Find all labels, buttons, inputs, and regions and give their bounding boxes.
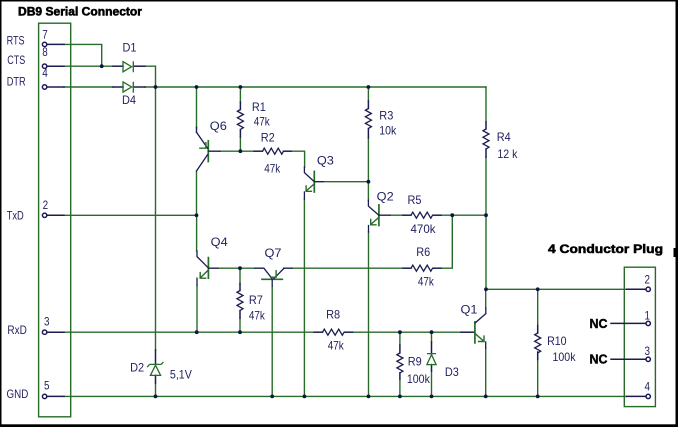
wire Q6 collector to TxD junction — [196, 171, 198, 215]
wire R3 stub bottom — [367, 129, 369, 139]
wire R7 bottom to RxD — [239, 318, 241, 332]
svg-text:Q1: Q1 — [461, 303, 478, 317]
svg-text:Q7: Q7 — [265, 246, 282, 260]
wire R9 top — [399, 332, 401, 345]
svg-text:Q6: Q6 — [210, 119, 227, 133]
wire plug pin2 line — [486, 288, 627, 290]
resistor R1 zigzag — [237, 110, 243, 130]
resistor R9 zigzag — [397, 353, 403, 373]
wire GND rail — [64, 395, 627, 397]
wire CTS pin8 to D1 — [64, 65, 113, 67]
wire D2 cathode stub — [155, 350, 157, 364]
wire R1 stub bottom — [239, 130, 241, 138]
wire Q2 base to R5 — [390, 214, 403, 216]
svg-text:2: 2 — [43, 198, 49, 212]
diode D4 — [123, 82, 133, 93]
wire R5 stub left — [403, 214, 411, 216]
wire D3 anode stub — [431, 365, 433, 371]
svg-text:R6: R6 — [416, 245, 430, 259]
svg-text:R8: R8 — [326, 308, 340, 322]
wire R9 stub top — [399, 345, 401, 353]
junction Q3 emitter on GND — [303, 395, 307, 399]
junction D2 on GND — [154, 395, 158, 399]
wire R4 stub top — [485, 122, 487, 129]
wire R9 bottom — [399, 379, 401, 396]
junction D3 bottom on GND — [430, 395, 434, 399]
wire R6 stub right — [433, 267, 441, 269]
connector DB9 box — [39, 23, 71, 417]
wire R10 top — [537, 289, 539, 325]
svg-text:47k: 47k — [328, 339, 345, 353]
wire RxD pin3 to R8 — [64, 331, 314, 333]
wire R1 bottom to base line — [239, 137, 241, 151]
svg-text:47k: 47k — [254, 115, 271, 129]
pin stub plug pin4 — [627, 395, 646, 397]
svg-text:D2: D2 — [130, 361, 144, 375]
wire D2 anode stub — [155, 375, 157, 383]
wire Q6 emitter branch — [196, 87, 198, 128]
pin circle plug 3 — [646, 357, 650, 361]
pin stub DB9 pin4 — [47, 86, 64, 88]
junction R10 bottom on GND — [536, 395, 540, 399]
wire R6 stub left — [403, 267, 411, 269]
wire R5 stub right — [433, 214, 441, 216]
resistor R8 zigzag — [323, 329, 345, 335]
wire Q6 base to R2 — [220, 150, 254, 152]
junction R3 on DTR rail — [367, 85, 371, 89]
transistor Q6 — [197, 128, 221, 172]
wire R3 branch top — [367, 87, 369, 101]
junction R9 bottom on GND — [398, 395, 402, 399]
wire D1 cathode to DTR rail — [145, 66, 156, 87]
wire D2 anode to GND — [155, 383, 157, 396]
wire D1 anode stub — [113, 65, 123, 67]
connector 4-conductor plug box — [624, 267, 655, 406]
wire Q2 collector stub — [367, 182, 369, 201]
svg-text:D3: D3 — [445, 365, 459, 379]
wire Q4 base line — [218, 267, 255, 269]
pin circle plug 2 — [646, 287, 650, 291]
svg-text:CTS: CTS — [7, 53, 25, 67]
wire R2 to Q3 collector — [291, 151, 305, 167]
pin circle DB9 8 — [42, 64, 46, 68]
resistor R6 zigzag — [411, 265, 433, 271]
svg-text:Q3: Q3 — [317, 154, 334, 168]
transistor Q7 — [255, 268, 292, 286]
wire R10 stub top — [537, 326, 539, 334]
junction R9 top on RxD — [398, 330, 402, 334]
wire D3 bottom — [431, 371, 433, 396]
wire Q2 emitter to GND — [368, 232, 370, 396]
wire R6 to R5 junction — [441, 215, 452, 268]
svg-text:GND: GND — [7, 387, 29, 401]
svg-text:3: 3 — [645, 344, 651, 358]
svg-text:DTR: DTR — [7, 75, 26, 89]
svg-text:8: 8 — [42, 45, 48, 59]
wire R10 stub bottom — [537, 352, 539, 360]
junction R1 bottom on base line — [239, 149, 243, 153]
wire R7 stub bottom — [239, 311, 241, 319]
pin stub plug pin2 — [627, 288, 646, 290]
svg-text:NC: NC — [590, 316, 609, 331]
pin stub plug pin3 NC — [611, 358, 645, 360]
junction Q6 emitter on DTR rail — [195, 85, 199, 89]
svg-text:R2: R2 — [261, 131, 275, 145]
junction R10 top — [536, 287, 540, 291]
wire R2 stub left — [254, 150, 263, 152]
wire R5 to R4 bottom — [441, 214, 486, 216]
junction Q7 base on GND — [270, 395, 274, 399]
wire Q3 base line — [323, 181, 368, 183]
junction Q1 collector pin2 line — [484, 287, 488, 291]
svg-text:Q4: Q4 — [211, 235, 228, 249]
wire R7 stub top — [239, 284, 241, 291]
wire R1 branch top — [239, 87, 241, 102]
wire RTS pin7 to CTS junction — [64, 44, 102, 66]
junction Q4 emitter on RxD — [195, 330, 199, 334]
junction R5 R6 — [450, 213, 454, 217]
svg-text:NC: NC — [590, 352, 609, 367]
svg-text:4: 4 — [645, 380, 651, 394]
wire R8 stub right — [345, 331, 353, 333]
wire R3 bottom to Q3 base junction — [367, 138, 369, 182]
svg-text:5: 5 — [44, 379, 50, 393]
svg-text:R7: R7 — [249, 293, 263, 307]
wire Q4 collector to RxD — [196, 285, 198, 332]
svg-text:100k: 100k — [553, 350, 577, 364]
pin stub plug pin1 NC — [611, 322, 645, 324]
svg-text:R3: R3 — [379, 109, 393, 123]
transistor Q3 — [304, 167, 323, 199]
transistor Q2 — [368, 200, 390, 232]
pin circle plug 1 — [646, 321, 650, 325]
svg-text:R5: R5 — [408, 193, 422, 207]
pin circle DB9 3 — [42, 330, 46, 334]
pin stub DB9 pin2 — [47, 214, 64, 216]
wire Q1 collector riser — [485, 289, 487, 308]
junction R3 bottom Q3 base — [367, 180, 371, 184]
wire TxD pin2 — [64, 214, 197, 216]
wire D3 cathode stub — [431, 342, 433, 353]
svg-text:R9: R9 — [408, 355, 422, 369]
junction TxD Q6-Q4 — [195, 213, 199, 217]
resistor R3 zigzag — [365, 109, 371, 129]
wire D4 cathode stub — [133, 86, 145, 88]
junction Q4 base R7 — [238, 266, 242, 270]
wire Q3 emitter to GND — [303, 199, 305, 396]
pin stub DB9 pin7 — [47, 43, 64, 45]
svg-text:12 k: 12 k — [497, 147, 518, 161]
pin circle plug 4 — [646, 394, 650, 398]
diode D3 — [427, 354, 436, 365]
svg-text:DB9 Serial Connector: DB9 Serial Connector — [18, 7, 143, 19]
svg-text:4 Conductor Plug: 4 Conductor Plug — [548, 242, 663, 256]
wire R4 branch top — [485, 87, 487, 122]
diode D1 — [123, 61, 133, 72]
svg-text:Q2: Q2 — [377, 190, 394, 204]
svg-text:D4: D4 — [122, 93, 136, 107]
wire R10 bottom — [537, 360, 539, 397]
svg-text:RxD: RxD — [7, 323, 27, 337]
pin circle DB9 4 — [42, 85, 46, 89]
junction Q2 emitter on GND — [367, 395, 371, 399]
svg-text:7: 7 — [42, 27, 48, 41]
svg-text:4: 4 — [42, 66, 48, 80]
wire D2 column top — [155, 87, 157, 350]
wire R4 bottom junction chain — [485, 157, 487, 289]
svg-text:100k: 100k — [407, 372, 431, 386]
wire Q1 emitter to GND — [485, 348, 487, 396]
transistor Q1 — [475, 308, 486, 348]
svg-text:TxD: TxD — [7, 209, 24, 223]
svg-text:RTS: RTS — [7, 34, 25, 48]
wire R3 stub top — [367, 101, 369, 109]
junction R4 bottom — [484, 213, 488, 217]
pin circle DB9 5 — [42, 394, 46, 398]
wire TxD junction to Q4 emitter-top — [196, 215, 198, 251]
svg-text:2: 2 — [645, 272, 651, 286]
svg-text:1: 1 — [645, 308, 651, 322]
wire Q7 emitter to R6 — [292, 267, 403, 269]
svg-text:R10: R10 — [547, 334, 567, 348]
junction R7 bottom on RxD — [238, 330, 242, 334]
junction R1 on DTR rail — [239, 85, 243, 89]
svg-text:R4: R4 — [497, 130, 511, 144]
pin circle DB9 2 — [42, 213, 46, 217]
zener diode D2 — [147, 362, 163, 376]
wire R8 to Q1 base — [353, 331, 462, 333]
wire R9 stub bottom — [399, 373, 401, 379]
svg-text:10k: 10k — [379, 124, 397, 138]
wire D4 anode stub — [113, 86, 123, 88]
pin stub DB9 pin3 — [47, 331, 64, 333]
junction D3 top on RxD — [430, 330, 434, 334]
wire D3 top — [431, 332, 433, 342]
wire DTR rail D4 to R4 top — [145, 86, 486, 88]
resistor R7 zigzag — [237, 291, 243, 311]
svg-text:470k: 470k — [411, 222, 437, 236]
wire R8 stub left — [314, 331, 322, 333]
svg-text:3: 3 — [44, 315, 50, 329]
junction D1 output on DTR rail — [154, 85, 158, 89]
resistor R5 zigzag — [411, 212, 433, 218]
wire D1 cathode stub — [133, 65, 145, 67]
resistor R2 zigzag — [263, 148, 284, 154]
wire R2 stub right — [284, 150, 292, 152]
svg-text:47k: 47k — [264, 162, 281, 176]
svg-text:R1: R1 — [252, 100, 266, 114]
wire R1 stub top — [239, 102, 241, 110]
resistor R10 zigzag — [535, 333, 541, 353]
svg-text:5,1V: 5,1V — [170, 368, 192, 382]
wire DTR pin4 to D4 — [64, 86, 113, 88]
wire R7 top — [239, 268, 241, 283]
resistor R4 zigzag — [483, 129, 489, 149]
transistor Q4 — [197, 251, 218, 285]
pin stub DB9 pin8 — [47, 65, 64, 67]
svg-text:47k: 47k — [418, 275, 435, 289]
wire Q1 base stub — [461, 331, 474, 333]
junction Q1 emitter on GND — [484, 395, 488, 399]
junction CTS/RTS — [100, 64, 104, 68]
wire R4 stub bottom — [485, 149, 487, 157]
svg-text:47k: 47k — [249, 309, 266, 323]
pin stub DB9 pin5 — [47, 395, 64, 397]
pin circle DB9 7 — [42, 42, 46, 46]
svg-text:D1: D1 — [123, 41, 137, 55]
wire Q7 base to GND — [271, 286, 273, 396]
